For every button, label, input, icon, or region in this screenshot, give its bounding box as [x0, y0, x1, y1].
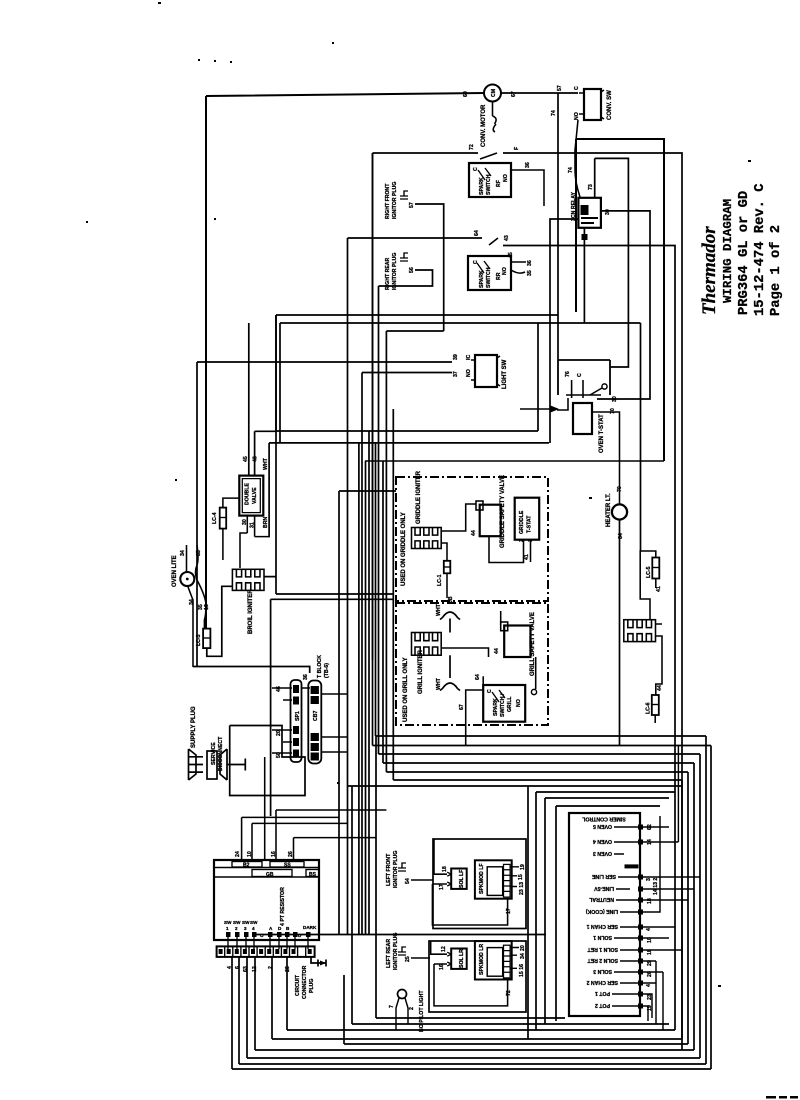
svg-text:IGNITOR PLUG: IGNITOR PLUG	[392, 182, 398, 219]
circuit connector plug arrow	[311, 957, 326, 967]
wire x558 turn left at y315 to x276 down	[276, 315, 558, 431]
svg-text:SOL LR: SOL LR	[459, 949, 465, 968]
wire 30 from relay	[597, 211, 650, 399]
svg-text:2: 2	[409, 1007, 415, 1010]
spark switch RF box	[469, 163, 511, 197]
svg-text:2: 2	[268, 966, 274, 969]
light switch wires	[197, 362, 452, 667]
broil igniter comb	[232, 569, 264, 590]
svg-text:24: 24	[235, 851, 241, 857]
svg-text:SPARK: SPARK	[479, 270, 485, 288]
strip stub wires	[272, 688, 348, 753]
svg-text:CONV. SW: CONV. SW	[607, 90, 613, 120]
svg-text:RIGHT FRONT: RIGHT FRONT	[385, 183, 391, 219]
wire relay left down	[550, 219, 578, 443]
svg-text:IC: IC	[466, 355, 472, 360]
valve bottom pins	[240, 516, 269, 568]
light sw box	[475, 355, 497, 387]
oven lite lamp	[180, 572, 194, 586]
svg-text:73: 73	[588, 184, 594, 190]
svg-text:70: 70	[617, 486, 623, 492]
svg-text:OVEN LITE: OVEN LITE	[172, 555, 178, 587]
SPKMOD LR	[475, 941, 512, 979]
svg-text:20: 20	[520, 945, 526, 951]
oven control box	[569, 813, 640, 1016]
svg-text:16: 16	[204, 604, 210, 610]
oven t-stat bracket	[558, 360, 610, 395]
svg-text:T-STAT: T-STAT	[527, 515, 533, 533]
t-stat blade and terminal circle	[590, 388, 602, 395]
svg-text:45: 45	[243, 456, 249, 462]
CB7 CB8 strip	[308, 681, 321, 764]
grill dashed box	[396, 603, 548, 725]
svg-text:IGNITOR PLUG: IGNITOR PLUG	[393, 933, 399, 970]
svg-text:34: 34	[189, 599, 195, 605]
svg-text:19: 19	[520, 864, 526, 870]
svg-text:SS: SS	[284, 863, 291, 869]
control pin wires right	[643, 746, 700, 1022]
svg-text:67: 67	[459, 704, 465, 710]
svg-text:PLUG: PLUG	[309, 979, 315, 993]
t-stat terminals	[566, 380, 601, 398]
left bottom verticals from terminal row	[232, 736, 376, 1069]
svg-text:57: 57	[409, 202, 415, 208]
LC-3 connector	[203, 629, 210, 649]
svg-text:OVEN 5: OVEN 5	[593, 823, 612, 829]
svg-text:SWITCH: SWITCH	[486, 267, 492, 288]
svg-text:OVEN T-STAT: OVEN T-STAT	[599, 414, 605, 453]
svg-text:63: 63	[243, 966, 249, 972]
control pin labels (rotated 180)	[585, 823, 618, 1008]
svg-text:GRIDDLE: GRIDDLE	[519, 510, 525, 534]
grill igniter comb	[412, 633, 442, 656]
svg-text:NO: NO	[502, 267, 508, 275]
svg-text:GRILL: GRILL	[507, 696, 513, 712]
svg-text:SW: SW	[233, 920, 241, 925]
svg-text:74: 74	[568, 167, 574, 173]
svg-text:SOLN 1: SOLN 1	[593, 934, 612, 940]
clock wires from bundle	[242, 810, 387, 860]
svg-text:41: 41	[524, 554, 530, 560]
svg-text:LEFT REAR: LEFT REAR	[386, 939, 392, 968]
svg-text:72: 72	[469, 144, 475, 150]
svg-text:4: 4	[252, 926, 255, 931]
svg-text:SER LINE: SER LINE	[592, 873, 616, 879]
svg-text:IGNITOR PLUG: IGNITOR PLUG	[393, 851, 399, 888]
conv motor circle CM	[484, 85, 501, 102]
svg-text:16: 16	[439, 964, 445, 970]
svg-text:SW: SW	[250, 920, 258, 925]
svg-text:USED ON GRIDDLE ONLY: USED ON GRIDDLE ONLY	[401, 512, 407, 586]
svg-text:16: 16	[271, 851, 277, 857]
switch blade RR	[489, 238, 498, 245]
svg-text:30: 30	[612, 396, 618, 402]
wire: RR circuit line y238	[348, 238, 483, 594]
svg-text:LIGHT SW: LIGHT SW	[502, 359, 508, 389]
svg-text:30: 30	[605, 209, 611, 215]
svg-text:41: 41	[656, 586, 662, 592]
scan specks top	[86, 2, 751, 987]
svg-text:44: 44	[471, 530, 477, 536]
svg-text:31: 31	[250, 522, 256, 528]
wire y666 horizontal	[193, 667, 310, 674]
SOL LF	[451, 869, 467, 889]
svg-text:USED ON GRILL ONLY: USED ON GRILL ONLY	[403, 657, 409, 722]
svg-text:LC-1: LC-1	[437, 574, 443, 586]
svg-text:RIGHT REAR: RIGHT REAR	[385, 257, 391, 290]
SPKMOD LF	[475, 860, 512, 898]
SP1 terminal strip	[291, 680, 302, 762]
svg-text:1: 1	[226, 926, 229, 931]
svg-text:NO: NO	[503, 174, 509, 182]
svg-text:18: 18	[442, 866, 448, 872]
svg-text:17: 17	[506, 908, 512, 914]
svg-text:56: 56	[409, 267, 415, 273]
svg-text:DOUBLE: DOUBLE	[245, 483, 251, 505]
svg-text:37: 37	[453, 371, 459, 377]
wire 36 from RF	[511, 170, 544, 206]
LC-6 connector	[652, 695, 659, 715]
svg-text:WHT: WHT	[436, 603, 442, 616]
svg-text:12: 12	[252, 966, 258, 972]
LC-1 connector	[444, 561, 451, 574]
svg-text:74: 74	[551, 110, 557, 116]
clock / timer box	[214, 860, 319, 940]
svg-text:4 PT RESISTOR: 4 PT RESISTOR	[280, 887, 286, 926]
control box nest rings	[348, 786, 683, 1039]
svg-text:50: 50	[276, 752, 282, 758]
svg-text:BRN: BRN	[263, 517, 269, 528]
long bus y934	[254, 934, 546, 936]
grill safety valve	[504, 626, 530, 658]
svg-text:CIRCUIT: CIRCUIT	[295, 974, 301, 996]
svg-text:C: C	[574, 86, 580, 90]
svg-text:34: 34	[520, 953, 526, 959]
svg-text:2: 2	[235, 926, 238, 931]
svg-text:OVEN 4: OVEN 4	[593, 838, 612, 844]
griddle valve wires	[441, 504, 523, 563]
svg-text:34: 34	[180, 550, 186, 556]
svg-text:SOL LF: SOL LF	[459, 870, 465, 888]
svg-text:17: 17	[439, 884, 445, 890]
svg-text:LC-3: LC-3	[196, 634, 202, 646]
grill electrode hooks	[440, 612, 460, 691]
wire: top-left corner bus	[206, 93, 484, 628]
svg-text:LC-6: LC-6	[646, 702, 652, 714]
svg-text:39: 39	[453, 354, 459, 360]
svg-text:GRIDDLE SAFETY VALVE: GRIDDLE SAFETY VALVE	[500, 475, 506, 548]
svg-text:25: 25	[405, 956, 411, 962]
oven lite wires from top	[187, 545, 199, 580]
svg-text:6: 6	[235, 966, 241, 969]
griddle t-stat	[515, 498, 540, 540]
svg-text:18: 18	[647, 898, 653, 904]
svg-text:44: 44	[494, 648, 500, 654]
svg-text:SER CHAN 1: SER CHAN 1	[586, 923, 618, 929]
LC-5 connector	[640, 551, 656, 620]
svg-text:NO: NO	[466, 369, 472, 377]
svg-text:SP1: SP1	[295, 711, 301, 721]
svg-text:BO PILOT LIGHT: BO PILOT LIGHT	[419, 990, 425, 1032]
svg-text:72: 72	[506, 990, 512, 996]
svg-text:4: 4	[646, 984, 652, 987]
wire 74 down from conv sw	[575, 120, 580, 197]
svg-text:SERVICE: SERVICE	[211, 742, 217, 765]
wire y331 from x386	[359, 331, 444, 935]
svg-text:DISCONNECT: DISCONNECT	[218, 736, 224, 771]
svg-text:LINE (COOK): LINE (COOK)	[585, 908, 618, 914]
svg-text:20: 20	[276, 730, 282, 736]
svg-text:SOLN 1 RET: SOLN 1 RET	[587, 946, 618, 952]
SOL LR	[451, 949, 467, 969]
wire to right box	[503, 153, 682, 1050]
svg-text:14 13 2: 14 13 2	[653, 878, 659, 895]
BO pilot light	[398, 990, 407, 999]
grill valve wires	[441, 611, 536, 689]
svg-text:30: 30	[242, 519, 248, 525]
svg-text:7: 7	[389, 1005, 395, 1008]
svg-text:DARK: DARK	[303, 925, 317, 930]
svg-text:POT 1: POT 1	[595, 990, 610, 996]
labels below row	[227, 966, 291, 972]
svg-text:54: 54	[405, 878, 411, 884]
svg-text:SWITCH: SWITCH	[486, 174, 492, 195]
svg-text:4: 4	[646, 928, 652, 931]
svg-text:23 13: 23 13	[519, 882, 525, 895]
bake igniter comb	[624, 620, 656, 642]
svg-text:SER CHAN 2: SER CHAN 2	[586, 979, 618, 985]
LC-4 connector	[223, 498, 239, 508]
svg-text:15 16: 15 16	[519, 964, 525, 977]
svg-text:SPARK: SPARK	[479, 177, 485, 195]
svg-text:VALVE: VALVE	[252, 487, 258, 504]
svg-text:CONV. MOTOR: CONV. MOTOR	[481, 104, 487, 147]
LC-3 to broil igniter wire	[207, 586, 233, 656]
svg-text:2: 2	[519, 539, 525, 542]
svg-text:SOLN 3: SOLN 3	[593, 968, 612, 974]
svg-text:WIRING DIAGRAM: WIRING DIAGRAM	[721, 199, 735, 303]
griddle safety valve	[480, 505, 501, 537]
svg-text:C: C	[577, 373, 583, 377]
svg-text:PRG364 GL or GD: PRG364 GL or GD	[737, 191, 752, 315]
svg-text:Page 1 of 2: Page 1 of 2	[768, 225, 784, 316]
svg-text:35: 35	[527, 270, 533, 276]
svg-text:SPARK: SPARK	[493, 698, 499, 716]
svg-text:15: 15	[518, 874, 524, 880]
svg-text:36: 36	[303, 674, 309, 680]
conv sw box	[584, 89, 601, 120]
control pins	[625, 825, 644, 1009]
svg-text:OVEN 3: OVEN 3	[593, 850, 612, 856]
svg-text:WHT: WHT	[263, 457, 269, 470]
LF module enclosure	[433, 839, 526, 929]
double valve wires top	[249, 323, 276, 476]
spark switch grill box	[483, 685, 525, 722]
svg-text:SW: SW	[224, 920, 232, 925]
svg-text:B2: B2	[243, 863, 250, 869]
svg-text:GRILL IGNITER: GRILL IGNITER	[418, 649, 424, 694]
svg-text:60: 60	[463, 91, 469, 97]
svg-text:GB: GB	[266, 872, 274, 878]
svg-text:57: 57	[557, 85, 563, 91]
conv motor plug stub	[493, 102, 497, 133]
svg-text:67: 67	[511, 91, 517, 97]
svg-text:SPKMOD LR: SPKMOD LR	[479, 944, 485, 975]
svg-text:NO: NO	[516, 699, 522, 707]
wire 73 stub	[595, 158, 629, 367]
svg-text:CM: CM	[491, 89, 497, 97]
bottom-right corner marks	[766, 1096, 798, 1099]
svg-text:BS: BS	[309, 872, 317, 878]
svg-text:10: 10	[247, 851, 253, 857]
terminal row connector	[217, 946, 315, 957]
wire 70 from t-stat to heater light	[592, 412, 620, 504]
svg-text:SW: SW	[242, 920, 250, 925]
svg-text:SPKMOD LF: SPKMOD LF	[479, 863, 485, 894]
svg-text:CB7: CB7	[313, 711, 319, 721]
middle bus bundle verticals	[339, 153, 396, 935]
svg-text:15-12-474 Rev. C: 15-12-474 Rev. C	[753, 184, 768, 316]
svg-text:36: 36	[525, 162, 531, 168]
bottom bus horizontals	[232, 1018, 711, 1069]
svg-text:POT 2: POT 2	[595, 1002, 610, 1008]
wire 45 line y245 to right	[503, 246, 675, 746]
svg-text:SUPPLY PLUG: SUPPLY PLUG	[191, 706, 197, 748]
svg-text:RF: RF	[496, 180, 502, 187]
wire x206 into LC-3	[204, 604, 206, 629]
bundle wrap horizontals right	[373, 736, 712, 780]
svg-text:35: 35	[196, 550, 202, 556]
svg-text:IGNITOR PLUG: IGNITOR PLUG	[392, 253, 398, 290]
svg-text:26: 26	[285, 966, 291, 972]
big right box top edge	[576, 139, 664, 461]
svg-text:JB: JB	[448, 596, 454, 603]
oven lite lower wires	[187, 580, 206, 667]
svg-text:LEFT FRONT: LEFT FRONT	[386, 853, 392, 886]
svg-text:12: 12	[441, 946, 447, 952]
svg-text:SOLN 2 RET: SOLN 2 RET	[587, 957, 618, 963]
heater wire down	[619, 520, 621, 746]
svg-text:3: 3	[244, 926, 247, 931]
svg-text:64: 64	[475, 674, 481, 680]
svg-text:26: 26	[288, 851, 294, 857]
griddle dashed box	[396, 477, 548, 601]
svg-text:NEUTRAL: NEUTRAL	[588, 896, 614, 902]
svg-text:36: 36	[527, 260, 533, 266]
wire: conv sw C vertical bus x558	[557, 93, 559, 360]
right wrap verticals	[675, 736, 711, 1069]
svg-text:T BLOCK: T BLOCK	[317, 655, 323, 678]
pin stubs clock to row	[228, 937, 308, 949]
broil comb right wire to bus	[264, 315, 394, 816]
wire: motor to conv sw	[501, 92, 578, 94]
svg-text:3: 3	[646, 878, 652, 881]
spark switch RR box	[468, 256, 511, 290]
svg-text:LINE-5V: LINE-5V	[594, 885, 614, 891]
double valve box	[239, 476, 263, 516]
svg-text:76: 76	[565, 371, 571, 377]
svg-text:LC-4: LC-4	[212, 512, 218, 524]
svg-text:SIMER CONTROL: SIMER CONTROL	[581, 816, 625, 822]
switch blade RF	[480, 153, 497, 159]
svg-text:Thermador: Thermador	[699, 226, 720, 315]
svg-text:44: 44	[657, 685, 663, 691]
svg-text:SWITCH /: SWITCH /	[500, 693, 506, 717]
griddle igniter comb	[412, 528, 442, 549]
LR module enclosure	[429, 941, 526, 1012]
svg-text:GRIDDLE IGNITER: GRIDDLE IGNITER	[416, 470, 422, 524]
svg-text:HEATER LT.: HEATER LT.	[606, 493, 612, 527]
relay bottom pin to bus	[583, 228, 585, 323]
oven t-stat body	[573, 403, 592, 434]
clock pins bottom	[226, 932, 311, 937]
svg-text:4: 4	[227, 966, 233, 969]
svg-text:43: 43	[504, 235, 510, 241]
3CN relay box	[578, 198, 601, 228]
service area box	[230, 726, 305, 796]
svg-text:(TB-6): (TB-6)	[324, 663, 330, 678]
svg-text:BROIL IGNITER: BROIL IGNITER	[248, 589, 254, 634]
svg-text:46: 46	[276, 686, 282, 692]
svg-text:CONNECTOR: CONNECTOR	[302, 965, 308, 999]
supply plug symbol	[189, 749, 246, 780]
title block	[699, 184, 784, 316]
ignitor plug RF symbol	[400, 191, 408, 199]
wire: RF circuit line y153	[373, 153, 479, 660]
svg-text:F: F	[514, 147, 520, 150]
wires 36 35 from RR	[511, 262, 526, 273]
svg-text:WHT: WHT	[436, 677, 442, 690]
svg-text:64: 64	[474, 230, 480, 236]
control pin numbers	[646, 824, 659, 1011]
svg-text:70: 70	[610, 408, 616, 414]
ignitor plug RR symbol	[400, 253, 408, 261]
svg-text:43: 43	[253, 456, 259, 462]
grill switch wires	[466, 676, 484, 745]
pin stub dashes	[612, 827, 638, 1006]
svg-text:LC-5: LC-5	[646, 566, 652, 578]
wire y323	[280, 323, 641, 551]
